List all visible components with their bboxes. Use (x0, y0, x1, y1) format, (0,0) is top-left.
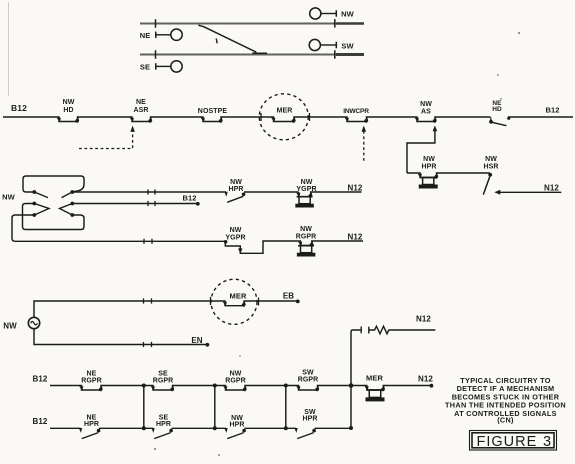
controller outer loop (12, 215, 100, 241)
svg-text:3: 3 (543, 434, 551, 450)
wire row D (72, 201, 197, 206)
node B12 right (545, 106, 559, 115)
svg-text:B12: B12 (33, 375, 48, 384)
contact SE HPR (151, 414, 173, 438)
svg-text:YGPR: YGPR (296, 186, 316, 193)
controller crossed blades (34, 192, 72, 215)
joint ticks source top (144, 298, 152, 303)
svg-text:N12: N12 (348, 233, 363, 242)
svg-text:RGPR: RGPR (81, 378, 102, 385)
contact NW RGPR rowC (296, 226, 317, 247)
svg-text:SE: SE (158, 370, 168, 377)
svg-text:HSR: HSR (483, 163, 498, 170)
svg-text:YGPR: YGPR (225, 234, 245, 241)
source AC machine (28, 317, 39, 328)
svg-text:NW: NW (420, 101, 432, 108)
signal NW (310, 8, 355, 19)
svg-text:NW: NW (301, 179, 313, 186)
svg-text:SE: SE (140, 63, 150, 72)
svg-text:EN: EN (191, 336, 202, 345)
wire to B12 right (508, 116, 573, 118)
svg-text:NW: NW (3, 321, 17, 330)
node bus junction (349, 383, 354, 430)
svg-text:NW: NW (63, 99, 75, 106)
node EN (191, 336, 209, 346)
svg-text:B12: B12 (11, 103, 27, 113)
wire N12 HSR (494, 190, 561, 195)
insulated joint upper right (334, 19, 336, 28)
contact MER bottom (365, 374, 386, 392)
node B12 left (11, 103, 27, 113)
signal SW (309, 39, 354, 50)
wire row C (100, 241, 363, 253)
svg-text:HPR: HPR (421, 163, 436, 170)
wire link 1 (142, 384, 146, 431)
svg-text:NW: NW (485, 156, 497, 163)
relay coil NW YGPR (295, 197, 314, 208)
node B12 bottom2 (33, 417, 48, 426)
controller bottom loop (23, 204, 85, 230)
node NW source label (3, 321, 17, 330)
node B12 row D (182, 193, 199, 205)
insulated joint upper left (155, 19, 157, 28)
signal SE (140, 61, 182, 72)
resistor R (369, 326, 435, 334)
signal NE (140, 29, 183, 40)
detector circle MER2 (211, 279, 257, 324)
node N12 resistor (416, 315, 431, 324)
contact NW RGPR (223, 370, 247, 391)
controller terminals (32, 190, 74, 217)
wire row A (72, 191, 298, 193)
contact NE HPR (79, 414, 101, 438)
svg-text:N12: N12 (348, 184, 363, 193)
svg-text:B12: B12 (33, 417, 48, 426)
contact NW HSR (483, 156, 498, 195)
svg-text:(CN): (CN) (497, 416, 514, 425)
svg-text:B12: B12 (545, 106, 559, 115)
relay coil MER (366, 390, 385, 401)
contact NW HPR bottom (224, 415, 246, 439)
svg-text:NW: NW (300, 226, 312, 233)
node NW controller label (2, 192, 16, 201)
contact MER (261, 107, 310, 122)
wire NW HPR row (407, 173, 490, 178)
contact NW AS (415, 101, 437, 123)
wire bottom row2 (50, 427, 351, 429)
contact NW HPR (418, 156, 439, 179)
wire link 2 (213, 384, 217, 431)
node N12 bottom (418, 374, 433, 387)
contact NOSTPE (198, 108, 228, 123)
node N12 HSR (544, 183, 559, 192)
svg-text:NOSTPE: NOSTPE (198, 108, 228, 115)
node N12 rowA (348, 184, 363, 193)
svg-text:RGPR: RGPR (225, 378, 246, 385)
relay coil NW RGPR (297, 246, 316, 257)
svg-text:ASR: ASR (133, 107, 148, 114)
svg-text:MER: MER (366, 374, 383, 383)
wire bus vertical (351, 330, 361, 428)
svg-text:HPR: HPR (84, 421, 99, 428)
svg-text:RGPR: RGPR (153, 378, 174, 385)
svg-text:HPR: HPR (156, 421, 171, 428)
mechanical linkage dashed (79, 126, 135, 149)
wire upper track (140, 22, 364, 24)
contact SW RGPR (296, 369, 319, 391)
svg-text:RGPR: RGPR (298, 377, 319, 384)
svg-text:NE: NE (140, 31, 151, 40)
joint ticks row A (148, 189, 155, 194)
svg-text:MER: MER (230, 291, 247, 300)
svg-text:HD: HD (63, 107, 73, 114)
caption text (445, 376, 566, 425)
contact NW YGPR rowA (296, 179, 316, 198)
svg-text:B12: B12 (182, 193, 196, 202)
wire link 3 (284, 384, 288, 431)
detector circle MER (259, 94, 308, 140)
node B12 bottom1 (33, 375, 48, 384)
svg-text:NE: NE (136, 99, 146, 106)
contact SE RGPR (151, 370, 175, 391)
contact NW HD (57, 99, 80, 123)
svg-text:N12: N12 (418, 374, 433, 383)
svg-text:HPR: HPR (229, 422, 244, 429)
svg-text:SW: SW (341, 42, 354, 51)
svg-text:NE: NE (87, 370, 97, 377)
controller top loop (23, 176, 84, 192)
svg-text:FIGURE: FIGURE (477, 434, 538, 450)
joint ticks source bottom (144, 342, 152, 347)
wire main row (3, 117, 491, 122)
contact NW HPR rowA (224, 179, 245, 203)
svg-text:HD: HD (492, 106, 502, 113)
svg-text:INWCPR: INWCPR (343, 108, 369, 115)
svg-text:NW: NW (2, 192, 16, 201)
svg-text:HPR: HPR (228, 186, 243, 193)
insulated joint lower right (334, 50, 336, 59)
wire lower track (140, 53, 364, 55)
svg-text:NW: NW (230, 370, 242, 377)
figure 3 box (470, 431, 557, 451)
svg-text:N12: N12 (416, 315, 431, 324)
contact NE ASR (130, 99, 153, 123)
joint ticks row C (144, 239, 152, 244)
svg-text:NW: NW (230, 227, 242, 234)
contact NE RGPR (79, 370, 103, 391)
svg-text:MER: MER (277, 107, 293, 114)
relay coil NW HPR (419, 178, 438, 189)
svg-text:SW: SW (302, 369, 314, 376)
svg-text:NW: NW (341, 10, 355, 19)
wire source bottom (34, 329, 207, 345)
svg-text:AS: AS (421, 108, 431, 115)
contact SW HPR (294, 409, 317, 439)
svg-text:RGPR: RGPR (296, 234, 317, 241)
wire row A right (299, 192, 362, 197)
wire bottom row1 (50, 386, 431, 391)
jack ticks (361, 327, 369, 334)
contact NE HD (489, 100, 510, 126)
contact MER source (211, 291, 259, 306)
contact NW YGPR rowC (224, 227, 246, 254)
linkage dashed INWCPR (362, 126, 367, 161)
wire source top (34, 301, 297, 317)
node N12 rowC (348, 233, 363, 242)
insulated joint lower left (155, 50, 157, 59)
contact INWCPR (343, 108, 369, 123)
svg-text:HPR: HPR (302, 416, 317, 423)
svg-text:NW: NW (230, 179, 242, 186)
svg-text:N12: N12 (544, 183, 559, 192)
crossover turnout (198, 25, 267, 53)
svg-text:NW: NW (423, 156, 435, 163)
svg-text:EB: EB (283, 291, 294, 300)
node EB (283, 291, 300, 303)
wire branch NW AS (407, 125, 437, 173)
